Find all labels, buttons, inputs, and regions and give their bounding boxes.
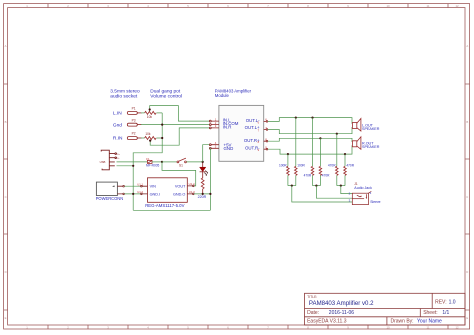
svg-text:P2: P2 <box>132 132 136 136</box>
resistor R5 470R <box>319 138 330 185</box>
pin P2 (R.IN) <box>113 132 142 142</box>
pin P3 (Gnd) <box>113 118 142 128</box>
wire USB GND to left gnd vertical <box>117 165 134 167</box>
junction dot gnd row / left vertical <box>132 193 134 195</box>
module U1 pin names <box>223 118 261 151</box>
svg-text:EasyEDA V3.11.3: EasyEDA V3.11.3 <box>307 319 347 325</box>
svg-text:1.0: 1.0 <box>449 300 456 306</box>
svg-text:L.IN: L.IN <box>113 111 122 117</box>
svg-text:11: 11 <box>427 325 430 329</box>
svg-text:audio socket: audio socket <box>110 93 138 99</box>
speaker LS2 R.OUT <box>352 137 379 150</box>
wire node bar R6-R7 <box>337 185 345 187</box>
resistor R6 470R <box>328 134 338 186</box>
svg-text:100R: 100R <box>297 163 305 167</box>
wire gnd vertical at pots <box>133 113 162 210</box>
module U1 PAM8403 body <box>219 105 264 161</box>
wire OUT.L- rail <box>268 118 353 124</box>
wire RL right to gnd vertical <box>156 112 162 114</box>
svg-text:U1.3: U1.3 <box>189 190 195 194</box>
wire +5V node up to module pin 4 <box>203 145 210 162</box>
svg-text:TITLE:: TITLE: <box>307 295 317 299</box>
svg-text:REG-AMS1117-5.0V: REG-AMS1117-5.0V <box>145 203 184 208</box>
wire USB VCC to fuse <box>117 161 148 163</box>
svg-text:IN.R: IN.R <box>223 124 232 129</box>
svg-text:C: C <box>5 195 7 199</box>
svg-text:12: 12 <box>455 4 459 8</box>
svg-text:VIN: VIN <box>150 185 157 189</box>
svg-text:470R: 470R <box>322 174 330 178</box>
potentiometer RR 10k <box>145 132 156 140</box>
svg-text:Sleeve: Sleeve <box>370 200 380 204</box>
note: PAM8403 Amplifier Module <box>215 88 252 97</box>
audio jack J1 <box>349 182 381 205</box>
svg-text:REV:: REV: <box>435 300 446 306</box>
junction dot gnd row right <box>209 193 211 195</box>
wire module pin 5 gnd down <box>209 148 210 210</box>
svg-text:Sheet:: Sheet: <box>423 310 437 316</box>
resistor R3 100R <box>295 118 306 186</box>
svg-text:10k: 10k <box>145 132 151 136</box>
wire node bar R4-R5 <box>313 185 321 187</box>
svg-text:E: E <box>466 316 468 320</box>
wire OUT.R- rail <box>268 146 353 154</box>
svg-text:Date:: Date: <box>307 310 319 316</box>
svg-text:GND.I: GND.I <box>150 193 161 197</box>
module U1 pin numbers <box>215 117 267 149</box>
LED1 <box>200 163 208 178</box>
svg-text:USB: USB <box>100 160 106 164</box>
wire RR right to gnd vertical <box>156 137 162 139</box>
svg-text:Audio Jack: Audio Jack <box>354 186 372 190</box>
svg-text:2016-11-06: 2016-11-06 <box>329 310 354 316</box>
svg-text:470R: 470R <box>304 174 312 178</box>
svg-text:12: 12 <box>455 325 459 329</box>
wire OUT.R+ rail <box>268 138 353 141</box>
switch S1 <box>177 158 186 163</box>
svg-text:10: 10 <box>386 4 390 8</box>
wire gnd bottom run <box>133 209 210 211</box>
regulator U1 AMS1117 <box>137 178 195 208</box>
wire vout riser to +5V junction <box>162 162 196 186</box>
junction dots on rails <box>287 117 346 156</box>
junction dot USB gnd <box>132 165 134 167</box>
junction dot +5V node <box>202 161 204 163</box>
svg-text:Volume control: Volume control <box>150 93 182 99</box>
pin P1 (L.IN) <box>113 107 142 117</box>
fuse F1 <box>146 157 160 168</box>
svg-text:F1: F1 <box>146 157 150 161</box>
wire node2 to jack middle pin <box>316 186 352 199</box>
svg-text:220R: 220R <box>198 195 207 199</box>
svg-text:100R: 100R <box>279 163 287 167</box>
wire L.IN pin to RL <box>141 112 145 114</box>
connector CN2 POWERCONN <box>96 182 125 201</box>
title block <box>305 293 466 325</box>
speaker LS1 L.OUT <box>352 119 379 132</box>
wire OUT.L+ rail <box>268 127 353 133</box>
svg-text:Gnd: Gnd <box>113 122 122 128</box>
svg-text:B: B <box>5 120 7 124</box>
svg-text:U1.2: U1.2 <box>137 190 143 194</box>
wire fuse to junction <box>152 161 162 163</box>
svg-text:D: D <box>466 270 468 274</box>
wire switch to +5V node <box>186 161 202 163</box>
svg-text:D-: D- <box>117 158 120 160</box>
junction dot led resistor bottom <box>202 193 204 195</box>
note: 3.5mm stereo audio socket <box>110 89 140 100</box>
wire R.IN pin to RR <box>141 137 145 139</box>
svg-text:POWERCONN: POWERCONN <box>96 196 124 201</box>
svg-text:P1: P1 <box>132 107 136 111</box>
svg-text:E: E <box>5 316 7 320</box>
svg-text:10: 10 <box>386 325 390 329</box>
svg-text:VOUT: VOUT <box>175 185 186 189</box>
svg-text:Your Name: Your Name <box>417 319 442 325</box>
module U1 left pin stubs 1-5 <box>209 120 218 149</box>
wire junction to switch <box>162 161 177 163</box>
module U1 right pin stubs 6-9 <box>264 121 268 150</box>
svg-text:Module: Module <box>215 93 230 98</box>
svg-text:470R: 470R <box>328 163 336 167</box>
potentiometer RL 10k <box>145 111 156 119</box>
note: Dual gang pot volume control <box>150 89 182 100</box>
svg-text:10k: 10k <box>147 115 153 119</box>
svg-text:C: C <box>466 195 468 199</box>
resistor R7 470R <box>344 154 355 186</box>
svg-text:GND.O: GND.O <box>173 193 185 197</box>
svg-text:D: D <box>5 270 7 274</box>
svg-text:470R: 470R <box>346 163 354 167</box>
svg-text:A: A <box>5 44 7 48</box>
svg-text:U1.4: U1.4 <box>189 182 195 186</box>
svg-text:MF-R005: MF-R005 <box>146 164 160 168</box>
svg-text:A: A <box>466 44 468 48</box>
module inner pin number 6 7 8 9 small <box>258 120 260 152</box>
svg-text:SPEAKER: SPEAKER <box>362 145 380 149</box>
svg-text:Drawn By:: Drawn By: <box>391 319 414 325</box>
wire powerconn pin2 to regulator GND.I <box>124 193 141 195</box>
svg-text:1/1: 1/1 <box>442 310 449 316</box>
junction dot fuse/switch/vout <box>161 161 163 163</box>
svg-text:U1.1: U1.1 <box>137 182 143 186</box>
connector CN1 USB <box>101 150 116 170</box>
resistor R2 100R <box>279 154 289 186</box>
svg-text:SPEAKER: SPEAKER <box>362 127 380 131</box>
junction dots input section <box>149 108 164 141</box>
wire L wiper to module IN.L <box>150 106 210 122</box>
svg-text:PAM8403 Amplifier v0.2: PAM8403 Amplifier v0.2 <box>309 300 374 307</box>
svg-text:S1: S1 <box>179 164 183 168</box>
wire node bar R2-R3 <box>288 185 296 187</box>
wire regulator GND.O to gnd vertical <box>194 193 210 195</box>
wire R wiper to module IN.R <box>150 128 209 145</box>
wire node3 to jack top pin <box>341 186 353 194</box>
junction dots node bars <box>291 185 342 187</box>
resistor R1 220R <box>198 178 207 199</box>
wire Gnd pin to module IN.COM <box>141 124 210 126</box>
svg-text:GND: GND <box>224 146 234 151</box>
svg-text:P3: P3 <box>132 118 136 122</box>
resistor R4 470R <box>304 118 314 186</box>
wire node1 to jack lower pin <box>292 186 353 202</box>
svg-text:R.IN: R.IN <box>113 136 123 142</box>
svg-text:B: B <box>466 120 468 124</box>
wire powerconn pin1 to regulator VIN <box>124 185 141 187</box>
svg-text:11: 11 <box>427 4 430 8</box>
